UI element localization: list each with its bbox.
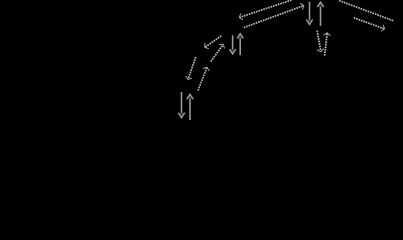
edge BC up-right arrow	[211, 44, 225, 61]
node D up arrow	[317, 2, 324, 26]
edge DE down arrow	[317, 31, 324, 52]
edge AB down-left arrow	[186, 57, 196, 80]
node A down arrow	[178, 92, 185, 118]
node A up arrow	[187, 94, 194, 120]
edge BC down-left arrow	[205, 36, 222, 49]
edge DE up arrow	[323, 33, 330, 56]
node D down arrow	[306, 2, 313, 25]
equilibrium-arrow diagram on black background	[0, 0, 403, 125]
edge AB up-right arrow	[198, 67, 209, 90]
node C down arrow	[229, 35, 235, 54]
node C up arrow	[237, 34, 243, 56]
edge DF upper line	[339, 1, 394, 22]
edge CD up-right arrow	[244, 3, 304, 27]
edge CD down-left arrow	[239, 0, 291, 20]
edge DF down-right arrow	[354, 18, 385, 32]
